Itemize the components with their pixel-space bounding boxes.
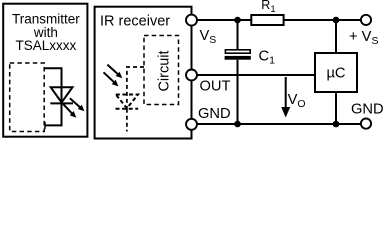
transmitter label <box>12 12 80 53</box>
wire VS rail <box>192 19 252 21</box>
svg-text:µC: µC <box>326 66 345 82</box>
microcontroller U1 <box>315 53 357 92</box>
terminal +VS <box>361 15 371 25</box>
capacitor C1 top lead <box>237 20 239 50</box>
transmitter dashed block <box>10 63 45 132</box>
cathode terminal tick <box>44 122 46 129</box>
capacitor C1 <box>225 50 251 60</box>
capacitor C1 bottom lead <box>237 60 239 124</box>
wire cathode lead <box>45 103 62 125</box>
LED emission arrow 2 <box>63 104 76 118</box>
LED D (TSAL) <box>50 87 73 103</box>
wire GND rail <box>192 123 361 125</box>
photodiode anode lead (dashed) <box>127 67 144 109</box>
terminal VS pin <box>186 15 197 26</box>
LED emission arrow 1 <box>70 98 85 111</box>
wire anode lead <box>44 68 62 103</box>
svg-text:GND: GND <box>351 102 384 118</box>
IR incoming arrow 2 <box>104 72 119 86</box>
wire R1 to +VS <box>284 19 361 21</box>
terminal OUT pin <box>186 70 197 81</box>
resistor R1 <box>251 15 283 25</box>
IR receiver box <box>95 7 192 139</box>
photodiode cathode lead (dashed) <box>126 109 128 132</box>
photodiode D (dashed) <box>116 95 139 109</box>
wire OUT <box>192 74 316 76</box>
node VS junction <box>234 17 241 24</box>
svg-text:TSALxxxx: TSALxxxx <box>16 38 77 53</box>
svg-text:Circuit: Circuit <box>156 50 172 91</box>
node uC supply junction <box>333 17 340 24</box>
svg-text:GND: GND <box>198 106 231 122</box>
IR incoming arrow 1 <box>107 65 122 79</box>
wire uC supply lead <box>335 20 337 53</box>
transmitter box <box>3 4 87 137</box>
arrow VO <box>281 77 290 118</box>
terminal GND pin <box>186 119 197 130</box>
circuit dashed block <box>144 36 179 105</box>
node uC ground junction <box>333 121 340 128</box>
wire uC ground lead <box>335 92 337 124</box>
svg-text:IR receiver: IR receiver <box>100 13 170 29</box>
node C1 ground junction <box>234 121 241 128</box>
svg-text:OUT: OUT <box>200 78 231 94</box>
terminal GND right <box>361 119 371 129</box>
